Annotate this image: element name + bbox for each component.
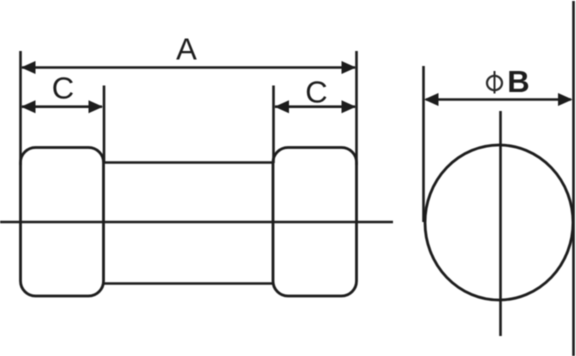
svg-text:C: C bbox=[52, 71, 74, 106]
svg-text:C: C bbox=[305, 75, 327, 110]
svg-text:B: B bbox=[507, 64, 529, 99]
svg-text:A: A bbox=[176, 32, 197, 67]
